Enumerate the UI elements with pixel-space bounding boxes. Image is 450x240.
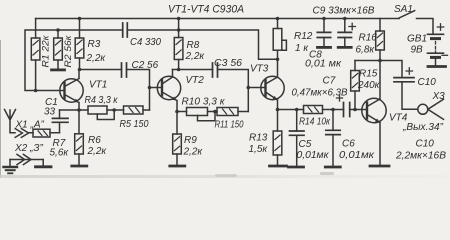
resistor R3 (75, 19, 106, 70)
ground under R2 (52, 69, 65, 72)
node R1 bottom on base line (34, 89, 38, 93)
svg-text:0,01мк: 0,01мк (297, 150, 330, 161)
svg-text:SA1: SA1 (394, 4, 413, 15)
capacitor C9 (313, 6, 375, 47)
connector X1 chevrons (15, 129, 28, 138)
resistor R14 (299, 106, 331, 128)
node VT1 emitter junction (77, 108, 81, 112)
wire VT2 emitter chain (177, 111, 248, 113)
ground under C9 (338, 46, 351, 49)
svg-text:R12: R12 (294, 31, 313, 42)
node VT3 emitter junction (276, 108, 280, 112)
resistor R12 (273, 19, 313, 60)
capacitor C10 (394, 68, 446, 162)
resistor R9 (173, 112, 204, 166)
node VT2 base junction (148, 86, 152, 90)
antenna X1 (5, 110, 45, 133)
connector X3 (402, 91, 445, 133)
svg-text:С3 56: С3 56 (214, 58, 242, 69)
svg-text:0,01 мк: 0,01 мк (305, 59, 342, 70)
svg-text:С9 33мк×16В: С9 33мк×16В (313, 6, 375, 17)
wire C2 to VT2 base riser (127, 70, 163, 111)
svg-text:Х3: Х3 (432, 91, 446, 102)
svg-text:GB1: GB1 (407, 34, 427, 45)
svg-text:R9: R9 (184, 135, 197, 146)
capacitor C1 (44, 97, 68, 133)
svg-text:R13: R13 (249, 133, 268, 144)
node R8 column on +rail (177, 17, 181, 21)
ground under R9 (170, 165, 185, 168)
svg-text:R5 150: R5 150 (120, 119, 149, 130)
svg-text:R10 3,3 к: R10 3,3 к (182, 97, 226, 108)
capacitor C4 (123, 23, 162, 48)
svg-text:Х2 „З”: Х2 „З” (14, 143, 43, 154)
svg-text:9В: 9В (411, 45, 424, 56)
wire antenna line (29, 132, 60, 134)
svg-text:„Вых.34”: „Вых.34” (402, 122, 444, 133)
svg-text:С6: С6 (342, 139, 355, 150)
wire base-bias rail / left column / VT1 base line (25, 30, 123, 91)
svg-text:R15: R15 (359, 69, 378, 80)
svg-text:R3: R3 (88, 39, 101, 50)
svg-text:R11 150: R11 150 (215, 120, 244, 131)
svg-text:2,2к: 2,2к (183, 147, 204, 158)
wire VT1 emitter line (60, 109, 150, 111)
resistor R2 (54, 30, 74, 69)
svg-text:R4 3,3 к: R4 3,3 к (85, 95, 119, 106)
svg-text:С7: С7 (323, 76, 336, 87)
earth X2 (4, 160, 18, 174)
node R3 top on +rail (78, 17, 82, 21)
ground under R13 (270, 165, 287, 168)
capacitor C6 (326, 110, 376, 166)
battery GB1 (407, 24, 448, 66)
svg-text:VT1-VT4 С930А: VT1-VT4 С930А (168, 4, 244, 16)
capacitor C2 (122, 60, 159, 77)
svg-text:R1 22к: R1 22к (41, 35, 52, 68)
node VT4 collector junction (378, 59, 382, 63)
wire VT2 collector to C3 (173, 69, 213, 71)
resistor R7 (33, 129, 69, 158)
ground under R6 (72, 165, 87, 168)
node R12 top on +rail (276, 17, 280, 21)
wire VT4 collector node (355, 61, 402, 78)
wire VT1 collector node to C2 (80, 69, 122, 71)
ground under C8 (318, 46, 331, 49)
transistor VT4 (362, 61, 408, 166)
connector X2 chevrons (10, 143, 43, 165)
resistor R4 (trimmer with tap) (85, 95, 119, 120)
transistor VT2 (157, 70, 204, 112)
svg-text:С5: С5 (299, 139, 312, 150)
node R8 bottom junction (177, 68, 181, 72)
wire rail2 right segment to R8 column (127, 30, 277, 59)
node C8 top on +rail (322, 17, 326, 21)
resistor R6 (75, 110, 108, 165)
node R8 column on bias rail (177, 28, 181, 32)
resistor R11 (215, 108, 244, 131)
svg-text:5,6к: 5,6к (50, 148, 70, 159)
node R10 tap junction (213, 110, 217, 114)
ground under VT4 emitter (370, 165, 389, 168)
svg-text:0,47мк×6,3В: 0,47мк×6,3В (292, 88, 348, 99)
capacitor C5 (290, 110, 330, 166)
svg-text:R14 10к: R14 10к (299, 117, 331, 128)
ground under C5 (289, 166, 304, 169)
svg-text:VT3: VT3 (250, 64, 269, 75)
node VT3 collector junction (276, 58, 280, 62)
ground under C6 (325, 166, 340, 169)
capacitor C8 (305, 19, 342, 70)
resistor R8 (174, 19, 205, 70)
resistor R1 (31, 19, 51, 91)
node VT3 base junction (247, 86, 251, 90)
switch SA1 (394, 4, 433, 34)
resistor R5 (120, 106, 149, 130)
svg-text:С10: С10 (418, 77, 437, 88)
svg-text:С4 330: С4 330 (130, 37, 161, 48)
svg-text:2,2к: 2,2к (185, 51, 206, 62)
svg-text:2,2к: 2,2к (86, 53, 107, 64)
svg-text:6,8к: 6,8к (356, 45, 376, 56)
wire +9V top rail (36, 18, 399, 20)
transistor VT3 (250, 59, 284, 109)
svg-text:2,2к: 2,2к (87, 146, 108, 157)
svg-text:VT2: VT2 (186, 75, 205, 86)
capacitor C3 (213, 58, 243, 77)
node VT2 emitter junction (175, 110, 179, 114)
ground right of X2 (36, 160, 52, 167)
resistor R10 (182, 97, 226, 121)
node C9 top on +rail (343, 17, 347, 21)
node VT1 collector junction (78, 68, 82, 72)
node C5 tap (295, 108, 299, 112)
svg-text:2,2мк×16В: 2,2мк×16В (395, 151, 446, 162)
svg-text:R16: R16 (359, 33, 378, 44)
transistor VT1 (60, 70, 108, 111)
node R4 tap junction (112, 108, 116, 112)
resistor R16 (356, 19, 385, 61)
node R15 bottom tap (353, 108, 357, 112)
svg-text:33: 33 (44, 107, 56, 118)
wire VT3 emitter chain (278, 109, 368, 111)
node C6 tap (331, 108, 335, 112)
svg-text:R8: R8 (187, 40, 200, 51)
resistor R13 (249, 110, 282, 166)
capacitor C7 (292, 76, 350, 117)
svg-text:R6: R6 (88, 135, 101, 146)
svg-text:1 к: 1 к (295, 43, 309, 54)
wire C3 to VT3 base riser (218, 70, 266, 112)
svg-text:С10: С10 (416, 139, 435, 150)
svg-text:VT1: VT1 (89, 80, 107, 91)
svg-text:R2 56к: R2 56к (63, 35, 74, 68)
svg-text:0,01мк: 0,01мк (339, 150, 375, 161)
ground under battery (428, 65, 446, 68)
resistor R15 (351, 61, 381, 110)
svg-text:1,5к: 1,5к (249, 144, 269, 155)
svg-text:240к: 240к (357, 80, 381, 91)
node R2 top on bias rail (56, 28, 60, 32)
